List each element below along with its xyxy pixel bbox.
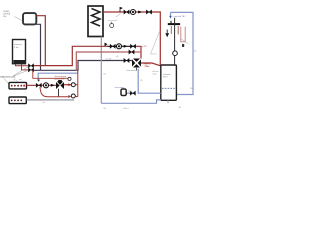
svg-text:exp kärl 18 l: exp kärl 18 l: [174, 15, 186, 18]
svg-text:avst ventil: avst ventil: [108, 19, 118, 22]
svg-text:retur: retur: [145, 65, 150, 68]
svg-text:golvvärme: golvvärme: [55, 77, 66, 80]
svg-text:500 l: 500 l: [163, 77, 168, 79]
svg-text:shuntmotor: shuntmotor: [126, 69, 137, 72]
svg-text:avst: avst: [128, 90, 132, 93]
svg-text:elpanna: elpanna: [14, 44, 23, 46]
svg-text:40 cu: 40 cu: [124, 108, 130, 110]
svg-text:9 kw: 9 kw: [14, 47, 19, 49]
svg-text:acktank: acktank: [163, 73, 171, 76]
svg-text:kv 25: kv 25: [106, 59, 112, 61]
